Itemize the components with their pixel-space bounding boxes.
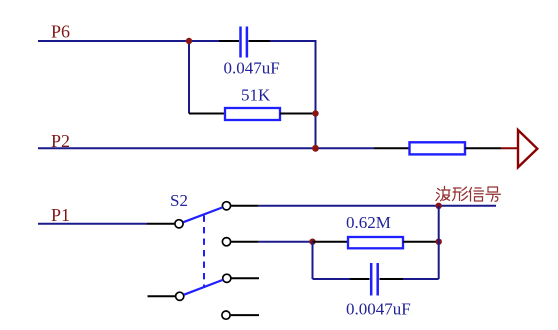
switch S2 label: [170, 191, 188, 210]
svg-text:0.0047uF: 0.0047uF: [346, 300, 411, 319]
switch S2 pole2 pin stub: [148, 295, 176, 297]
switch S2 actuator blade pole2: [184, 280, 223, 295]
capacitor C top pin left: [219, 40, 239, 42]
net label waveform signal (CJK strokes): [436, 187, 501, 202]
svg-text:0.62M: 0.62M: [346, 213, 391, 232]
switch S2 actuator blade pole1: [183, 207, 222, 222]
switch S2 pole2 circle: [176, 292, 184, 300]
switch S2 pole1 pin: [147, 223, 174, 225]
resistor 0.62M body: [348, 237, 403, 248]
capacitor C2 right pin: [380, 278, 404, 280]
switch S2 throw2 circle: [222, 238, 230, 246]
svg-text:51K: 51K: [241, 86, 271, 105]
wire vertical from P6 junction down to 51K resistor: [188, 41, 190, 114]
svg-text:S2: S2: [170, 191, 188, 210]
wire P6 horizontal: [38, 40, 219, 42]
wire RC left vertical: [312, 242, 314, 279]
node P6 label: [51, 22, 70, 42]
resistor 0.62M right pin: [403, 241, 439, 243]
wire RC right vertical: [438, 206, 440, 279]
switch S2 throw1 circle: [222, 202, 230, 210]
wire bottom branch left: [313, 278, 351, 280]
resistor R2 body: [410, 142, 466, 154]
capacitor C2 0.0047uF plates: [371, 263, 378, 296]
junction dot waveform node: [436, 203, 442, 209]
junction dot resistor right: [312, 110, 318, 116]
resistor 51K left pin: [189, 113, 225, 115]
capacitor C2 left pin: [350, 278, 370, 280]
port triangle output: [518, 130, 537, 167]
node P1 label: [51, 205, 70, 225]
switch S2 throw2 pin: [231, 241, 259, 243]
junction dot RC right: [436, 239, 442, 245]
value label 0.047uF: [224, 59, 280, 78]
wire maroon to port triangle: [501, 147, 518, 149]
value label 0.0047uF: [346, 300, 411, 319]
resistor R2 left pin: [374, 147, 410, 149]
resistor R2 right pin: [465, 147, 501, 149]
wire throw1 to right (waveform out): [259, 205, 496, 207]
switch S2 mechanical dashed link: [203, 216, 205, 289]
capacitor C top pin right: [249, 40, 271, 42]
value label 0.62M: [346, 213, 391, 232]
resistor 0.62M left pin: [313, 241, 349, 243]
wire P2 horizontal: [38, 147, 374, 149]
switch S2 pole1 circle: [175, 220, 183, 228]
node P2 label: [51, 131, 70, 151]
switch S2 pole2 upper throw pin stub: [232, 277, 260, 279]
junction dot at P6 branch: [186, 38, 192, 44]
junction dot P2 line: [312, 145, 319, 152]
svg-text:P6: P6: [51, 22, 70, 42]
resistor 51K right pin: [280, 113, 313, 115]
wire P1 horizontal: [38, 223, 147, 225]
resistor 51K body: [225, 108, 280, 120]
capacitor C 0.047uF plates: [241, 27, 247, 58]
switch S2 throw1 pin: [231, 205, 259, 207]
wire bottom branch right: [403, 278, 439, 280]
svg-text:0.047uF: 0.047uF: [224, 59, 280, 78]
value label 51K: [241, 86, 271, 105]
wire cap right to corner and down: [270, 41, 316, 148]
switch S2 pole2 lower throw circle: [222, 311, 230, 319]
junction dot RC left: [309, 239, 315, 245]
switch S2 pole2 upper throw circle: [223, 274, 231, 282]
svg-text:P1: P1: [51, 205, 70, 225]
switch S2 pole2 lower throw pin stub: [231, 314, 259, 316]
wire throw2 to RC network: [259, 241, 313, 243]
